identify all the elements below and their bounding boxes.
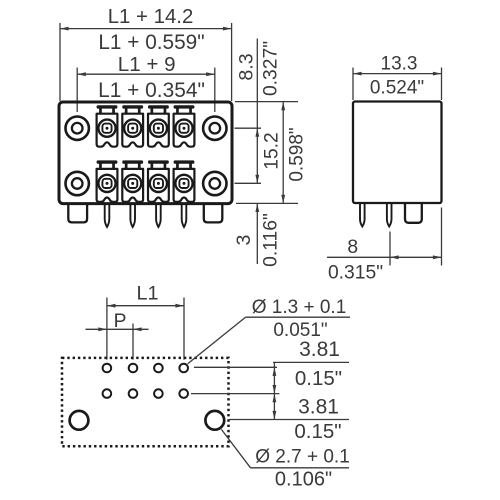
solder pin needle 4 front view [182,203,187,227]
extension line row2 centre [235,182,262,184]
solder pin needle 2 side view [387,203,392,227]
dimension 8 extension line pin [389,232,391,266]
contact cell row1 pos2 [122,105,143,147]
extension line body bottom [236,202,298,204]
drill hole 1.3mm row2 pos4 [179,389,188,398]
drill hole 1.3mm row2 pos3 [154,389,163,398]
connector body front view [59,102,232,204]
drill hole 1.3mm row1 pos2 [129,364,138,373]
solder pin flat right front view [204,203,223,222]
svg-text:0.15": 0.15" [294,420,341,443]
contact cell row2 pos3 [148,160,169,202]
leader line to hole 2.7 [221,429,250,467]
contact cell row1 pos1 [97,105,118,147]
svg-text:L1 + 14.2: L1 + 14.2 [108,6,194,28]
svg-text:0.327": 0.327" [260,41,281,96]
contact cell row2 pos2 [122,160,143,202]
dimension L1+14.2 / L1+0.559in extension line left [59,23,61,101]
svg-text:0.524": 0.524" [370,78,424,99]
mounting ring B2 row 2 [203,172,226,195]
mounting ring A1 row 1 [66,117,89,140]
dimension line 13.3 [353,73,442,75]
dimension line L1 [107,305,184,307]
svg-text:0.106": 0.106" [275,468,332,490]
label Ø 1.3 + 0.1 underline [246,316,351,318]
dimension line L1+14.2 [60,28,232,30]
separator line 3.81 first [273,361,349,363]
PCB outline dashed [62,358,229,446]
solder pin needle 3 front view [156,203,161,227]
dimension line 8.3 [256,39,258,184]
solder pin needle 1 side view [360,203,365,227]
drill hole 1.3mm row1 pos4 [179,364,188,373]
svg-text:8: 8 [347,237,358,258]
extension line hole row1 [194,366,277,368]
dimension 8 extension line body edge [441,208,443,266]
connector body side view [353,102,442,204]
svg-text:0.116": 0.116" [261,213,282,267]
drill hole 1.3mm row1 pos3 [154,364,163,373]
svg-text:0.598": 0.598" [287,127,308,181]
svg-text:Ø 1.3 + 0.1: Ø 1.3 + 0.1 [252,297,347,318]
solder pin flat left front view [68,203,87,222]
svg-text:Ø 2.7 + 0.1: Ø 2.7 + 0.1 [255,446,350,467]
drill hole 2.7mm left [70,411,89,430]
svg-text:8.3: 8.3 [235,53,257,80]
svg-text:0.15": 0.15" [295,367,342,390]
solder pin needle 1 front view [105,203,110,227]
svg-text:L1 + 9: L1 + 9 [118,53,176,76]
contact cell row1 pos3 [148,105,169,147]
dimension L1+9 extension line left [76,68,78,113]
contact cell row2 pos4 [174,160,195,202]
extension line body top [235,101,298,103]
dimension line 15.2 [282,102,284,204]
dimension line 3.81 stack [273,362,275,419]
contact cell row1 pos4 [174,105,195,147]
svg-text:L1 + 0.354": L1 + 0.354" [98,79,205,102]
dimension line 3 [256,203,258,264]
drill hole 1.3mm row1 pos1 [103,364,112,373]
dimension P extension line [132,324,134,360]
dimension L1 extension line left [106,298,108,360]
svg-text:3.81: 3.81 [299,338,340,361]
svg-text:3: 3 [233,234,255,245]
svg-text:15.2: 15.2 [261,132,282,170]
extension line row1 centre [235,127,262,129]
dimension L1+14.2 / L1+0.559in extension line right [231,23,233,101]
svg-text:L1 + 0.559": L1 + 0.559" [98,31,204,54]
leader line to hole 1.3 [188,317,246,364]
drill hole 2.7mm right [205,411,224,430]
contact cell row2 pos1 [97,160,118,202]
dimension line 8 [327,256,442,258]
drill hole 1.3mm row2 pos2 [129,389,138,398]
svg-text:13.3: 13.3 [381,54,418,75]
label Ø 2.7 + 0.1 underline [251,467,350,469]
extension line hole row2 [191,393,279,395]
drill hole 1.3mm row2 pos1 [103,389,112,398]
dimension 13.3 extension line right [441,68,443,101]
dimension line P with outside arrows [86,328,149,330]
dimension L1+9 extension line right [214,68,216,113]
mounting ring B1 row 2 [66,172,89,195]
svg-text:L1: L1 [136,283,158,305]
dimension line L1+9 [77,73,215,75]
svg-text:0.315": 0.315" [328,263,383,284]
solder pin needle 2 front view [130,203,135,227]
svg-text:3.81: 3.81 [298,396,339,419]
dimension 13.3 extension line left [352,68,354,101]
extension line big hole row / separator 3.81 second [229,419,349,421]
solder pin flat side view [405,203,422,223]
mounting ring A2 row 1 [203,117,226,140]
dimension L1 extension line right [183,298,185,360]
